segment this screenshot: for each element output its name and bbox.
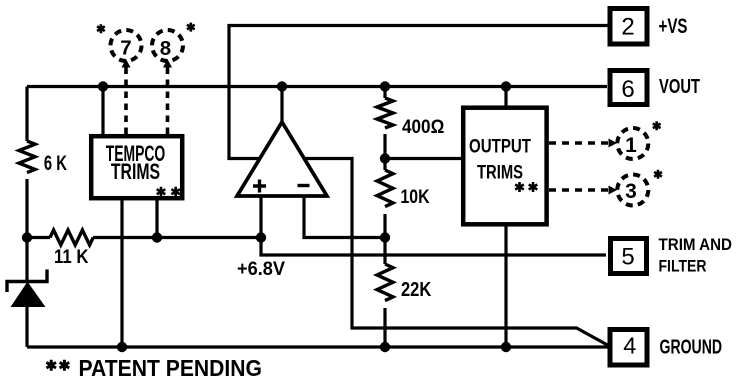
- asterisk near pad 7: [97, 24, 105, 33]
- wire left rail top: [25, 87, 28, 142]
- wire 11K net left: [27, 236, 50, 239]
- wire left rail mid: [25, 179, 28, 281]
- resistor R 6K: [19, 141, 35, 173]
- svg-text:TRIM AND: TRIM AND: [659, 235, 733, 254]
- wire TEMPCO top pin: [101, 87, 104, 137]
- asterisk near pad 8: [187, 23, 195, 32]
- resistor R 22K: [377, 264, 393, 301]
- pin box 5: [611, 239, 647, 274]
- trim pad circle 7: [111, 30, 142, 61]
- trim pad circle 3: [617, 175, 648, 206]
- svg-text:TRIMS: TRIMS: [111, 159, 160, 184]
- svg-text:11 K: 11 K: [54, 247, 89, 268]
- svg-text:1: 1: [625, 134, 637, 157]
- svg-text:TRIMS: TRIMS: [477, 163, 523, 184]
- svg-text:6 K: 6 K: [44, 151, 67, 175]
- wire TEMPCO bottom-left pin: [120, 198, 123, 347]
- wire bottom ground rail: [27, 345, 608, 348]
- svg-text:400Ω: 400Ω: [402, 116, 444, 138]
- svg-text:10K: 10K: [401, 187, 430, 208]
- wire op-amp output to VOUT rail: [280, 87, 283, 125]
- asterisk near pad 3: [654, 170, 662, 179]
- svg-text:6: 6: [621, 76, 634, 103]
- junction dots on VOUT rail: [98, 81, 511, 91]
- asterisk near pad 1: [653, 121, 661, 130]
- wire OUTPUT TRIMS top pin: [504, 87, 507, 110]
- resistor R 400ohm: [377, 98, 393, 128]
- resistor R 10K: [377, 170, 393, 207]
- wire op-amp right side to ground pin4: [306, 159, 608, 346]
- svg-text:FILTER: FILTER: [659, 257, 707, 276]
- wire left rail bottom: [25, 306, 28, 347]
- wire 10K to 22K node: [383, 214, 386, 264]
- svg-text:3: 3: [625, 180, 637, 203]
- junction dots on ground rail: [117, 342, 511, 352]
- svg-text:+6.8V: +6.8V: [237, 258, 285, 280]
- dashed lead to pad 1 with arrowhead: [549, 139, 617, 148]
- svg-text:GROUND: GROUND: [660, 336, 723, 359]
- svg-text:VOUT: VOUT: [659, 76, 700, 98]
- pin box 4: [610, 330, 647, 366]
- svg-text:+VS: +VS: [659, 14, 688, 38]
- dashed lead to pad 7 with arrowhead: [122, 59, 131, 134]
- svg-text:7: 7: [120, 37, 131, 60]
- wire node 400/10K to OUTPUT TRIMS box: [385, 157, 463, 160]
- asterisk pair in TEMPCO box: [157, 187, 180, 197]
- box OUTPUT TRIMS: [463, 108, 546, 225]
- dashed lead to pad 3 with arrowhead: [549, 186, 617, 195]
- svg-text:OUTPUT: OUTPUT: [469, 136, 531, 157]
- asterisk pair in OUTPUT TRIMS box: [515, 182, 537, 192]
- pin box 2: [610, 9, 647, 45]
- svg-text:PATENT PENDING: PATENT PENDING: [79, 355, 263, 381]
- wire 400ohm to 10K: [383, 134, 386, 170]
- trim pad circle 8: [152, 30, 183, 61]
- trim pad circle 1: [617, 128, 648, 159]
- zener diode D1: [7, 270, 47, 307]
- wire OUTPUT TRIMS bottom pin to ground rail: [504, 225, 507, 347]
- wire +VS rail: pin2 to op-amp left side: [229, 26, 608, 159]
- box TEMPCO TRIMS: [91, 136, 182, 198]
- wire op-amp + input lead: [259, 193, 262, 238]
- wire 400ohm top lead: [383, 87, 386, 99]
- resistor R 11K: [50, 230, 93, 245]
- svg-text:5: 5: [621, 244, 634, 271]
- wire 22K bottom lead to ground rail: [383, 308, 386, 347]
- svg-text:4: 4: [623, 333, 636, 359]
- junction dots on 6.8V net: [22, 232, 390, 242]
- pin box 6: [610, 71, 647, 105]
- dashed lead to pad 8 with arrowhead: [163, 59, 172, 134]
- wire 11K net right to op-amp + input: [93, 236, 261, 239]
- svg-text:8: 8: [160, 37, 171, 60]
- wire main VOUT rail: [27, 85, 607, 88]
- asterisk pair patent note: [46, 360, 69, 371]
- wire +6.8V node to pin5 TRIM AND FILTER: [261, 238, 606, 256]
- junction dot node 400/10K: [380, 153, 390, 163]
- wire op-amp - input lead to 10K/22K node: [304, 193, 385, 238]
- svg-text:22K: 22K: [401, 279, 432, 301]
- svg-text:2: 2: [621, 14, 634, 41]
- op-amp U1: [237, 122, 327, 196]
- wire TEMPCO bottom-right pin: [155, 198, 158, 238]
